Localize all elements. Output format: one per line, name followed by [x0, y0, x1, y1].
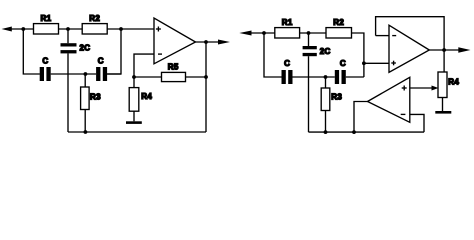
wire junction down to C row right end — [107, 29, 121, 74]
node: input junction dot — [262, 31, 266, 35]
ground (right circuit) — [435, 111, 451, 114]
wire node to R5 — [134, 76, 162, 78]
node: A1 output junction dot — [442, 48, 446, 52]
wire R4 to ground — [133, 111, 135, 121]
node: R1-R2 junction dot (right) — [307, 31, 311, 35]
capacitor C (right circuit, right) — [335, 70, 346, 84]
svg-text:R3: R3 — [90, 92, 101, 101]
wire input to R1 — [11, 28, 34, 30]
svg-text:2C: 2C — [80, 44, 91, 53]
wire A2 output to bottom rail — [354, 102, 368, 133]
wire R3 bottom to bottom rail — [84, 110, 86, 133]
svg-text:C: C — [42, 56, 48, 65]
wire R1 to R2 — [59, 28, 83, 30]
capacitor 2C (right) — [303, 46, 317, 56]
wire R1 to R2 — [300, 32, 326, 34]
resistor R2 (right) — [326, 28, 352, 38]
svg-text:C: C — [284, 59, 290, 68]
wire input junction down to C row — [264, 33, 282, 77]
minus sign U1 — [158, 53, 162, 55]
resistor R4 potentiometer (right) — [438, 72, 447, 98]
wire tap to op-amp + input — [364, 62, 389, 64]
plus sign U1 — [156, 27, 161, 32]
node: R3-bottom rail junction dot — [84, 130, 88, 134]
wire minus input A1 — [376, 35, 389, 37]
minus sign A1 — [392, 35, 396, 37]
plus sign A1 — [391, 61, 396, 66]
wire 2C top lead — [67, 29, 69, 43]
wire R2 right and down to C row end — [352, 33, 364, 77]
node: output junction dot — [204, 40, 208, 44]
wire R3 bottom to bottom rail (right) — [325, 111, 327, 133]
wire op-amp output — [195, 41, 219, 43]
op-amp A1 (right circuit) — [389, 25, 429, 72]
node: R3 bottom rail junction dot (right) — [324, 130, 328, 134]
wire minus input — [134, 54, 154, 77]
wire output down to bottom rail — [205, 42, 207, 132]
resistor R1 — [34, 24, 59, 34]
resistor R3 (right) — [321, 88, 330, 111]
svg-text:2C: 2C — [320, 47, 331, 56]
wire R2 to op-amp + input — [107, 28, 154, 30]
wire C to C middle segment — [51, 73, 96, 75]
node: input junction dot — [21, 27, 25, 31]
svg-text:R2: R2 — [89, 14, 100, 23]
resistor R2 — [82, 24, 107, 34]
wire output down to R4 (right) — [443, 50, 445, 72]
wiper arrow into R4 — [432, 86, 439, 91]
capacitor 2C — [61, 43, 77, 53]
resistor R4 — [129, 88, 139, 112]
op-amp A2 (buffer, pointing left) — [368, 77, 410, 122]
svg-text:R1: R1 — [282, 18, 293, 27]
resistor R3 — [81, 87, 90, 110]
wire feedback loop over A1 — [376, 17, 445, 50]
wire A2 + input to potentiometer wiper — [410, 87, 434, 89]
wire junction down to R3 — [84, 74, 86, 87]
node: C-C junction dot (right circuit) — [324, 75, 328, 79]
input arrow (right circuit, pointing left) — [239, 31, 251, 36]
node: C-C junction dot — [84, 72, 88, 76]
wire A1 output — [429, 49, 460, 51]
ground (left circuit) — [126, 121, 142, 124]
capacitor C (left) — [40, 67, 51, 81]
wire 2C top lead (right) — [308, 33, 310, 46]
capacitor C (right circuit, left) — [282, 70, 293, 84]
node: R5-output junction dot — [204, 75, 208, 79]
wire bottom rail (bootstrap) — [68, 131, 206, 133]
wire 2C bottom lead down to bottom rail — [308, 56, 310, 132]
svg-text:C: C — [340, 59, 346, 68]
wire junction down to R3 (right) — [325, 77, 327, 88]
wire bottom rail (right circuit) — [309, 131, 425, 133]
minus sign A2 — [401, 113, 406, 115]
node: A2 output rail junction dot — [352, 130, 356, 134]
resistor R1 (right) — [275, 28, 300, 38]
resistor R5 — [162, 72, 186, 81]
svg-text:C: C — [98, 56, 104, 65]
node: feedback node dot — [132, 75, 136, 79]
svg-text:R2: R2 — [333, 18, 344, 27]
wire R5 to output branch — [186, 76, 207, 78]
output arrow (pointing right) — [218, 40, 230, 45]
output arrow (right circuit, pointing right) — [458, 47, 470, 53]
wire input to R1 — [250, 32, 275, 34]
wire C row left segment — [39, 73, 41, 75]
svg-text:R3: R3 — [331, 92, 342, 101]
wire C row right segment — [107, 73, 121, 75]
svg-text:R5: R5 — [168, 62, 179, 71]
wire node down to R4 — [133, 77, 135, 88]
svg-text:R4: R4 — [448, 78, 459, 87]
node: + input tap dot — [362, 61, 366, 65]
wire 2C bottom lead down to bottom rail — [67, 53, 69, 132]
plus sign A2 — [402, 86, 407, 91]
svg-text:R1: R1 — [41, 14, 52, 23]
node: top rail / C-row junction dot — [119, 27, 123, 31]
capacitor C (right) — [96, 67, 107, 81]
wire R4 to ground (right) — [442, 98, 444, 112]
wire A2 minus input to bottom rail — [410, 114, 424, 132]
node: R1-R2 junction dot — [66, 27, 70, 31]
wire input junction down to C row — [23, 29, 39, 74]
op-amp U1 — [154, 18, 196, 64]
wire C row right segment (right circuit) — [346, 76, 364, 78]
svg-text:R4: R4 — [141, 92, 152, 101]
input arrow (left, pointing left) — [2, 27, 12, 32]
wire C to C middle segment (right circuit) — [293, 76, 335, 78]
